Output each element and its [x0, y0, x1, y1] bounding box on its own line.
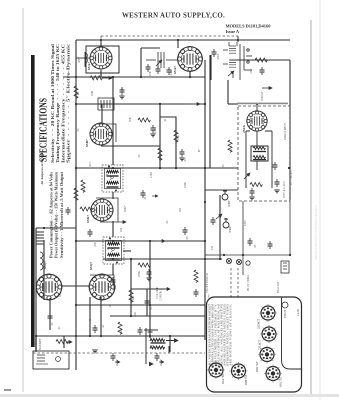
- svg-text:.0001: .0001: [170, 69, 173, 76]
- svg-text:.01: .01: [164, 118, 167, 122]
- svg-text:1200: 1200: [244, 220, 247, 226]
- svg-text:6SK7GT: 6SK7GT: [255, 361, 259, 372]
- svg-text:.006: .006: [120, 329, 123, 334]
- svg-text:Power Output (5B Volts) - - 15: Power Output (5B Volts) - - 150 Watts Ma…: [55, 171, 59, 258]
- svg-text:6SK7: 6SK7: [124, 205, 127, 212]
- svg-text:220K: 220K: [184, 182, 187, 188]
- svg-text:1M: 1M: [179, 208, 182, 212]
- svg-text:6SK7: 6SK7: [86, 215, 90, 223]
- svg-text:SOCKET: SOCKET: [38, 338, 42, 350]
- svg-text:25Z6: 25Z6: [242, 125, 246, 133]
- svg-text:6SA7: 6SA7: [87, 62, 91, 70]
- svg-text:30MF: 30MF: [229, 226, 232, 233]
- svg-text:AVC: AVC: [89, 161, 92, 167]
- svg-text:20MF: 20MF: [116, 359, 119, 366]
- svg-text:IF: IF: [106, 173, 109, 176]
- svg-text:150: 150: [211, 245, 214, 250]
- svg-text:Issue A: Issue A: [226, 29, 240, 34]
- svg-text:10K: 10K: [69, 152, 72, 157]
- svg-text:.62 Amperes at 84 Volts: .62 Amperes at 84 Volts: [40, 151, 44, 185]
- svg-text:470K: 470K: [138, 271, 141, 277]
- svg-text:.05: .05: [51, 322, 54, 326]
- svg-text:25Z6GT: 25Z6GT: [261, 91, 264, 101]
- svg-text:WESTERN AUTO SUPPLY,CO.: WESTERN AUTO SUPPLY,CO.: [122, 13, 225, 20]
- svg-text:PILOT: PILOT: [283, 309, 287, 318]
- svg-text:25L6GT: 25L6GT: [258, 340, 262, 350]
- svg-text:LOOP: LOOP: [55, 224, 58, 232]
- svg-text:.05: .05: [166, 220, 169, 224]
- svg-text:6SA7GT: 6SA7GT: [221, 373, 225, 384]
- svg-text:220K: 220K: [159, 154, 162, 160]
- svg-text:.006: .006: [134, 312, 137, 317]
- svg-text:ON-OFF SWITCH: ON-OFF SWITCH: [206, 273, 209, 293]
- svg-text:.01: .01: [89, 318, 92, 322]
- svg-text:PILOT 150MA: PILOT 150MA: [247, 275, 250, 291]
- svg-text:.05: .05: [184, 158, 187, 162]
- svg-text:SPECIFICATIONS CONTINUED MODEL: SPECIFICATIONS CONTINUED MODELS: [314, 205, 318, 260]
- svg-text:47K: 47K: [129, 117, 132, 122]
- svg-text:1M: 1M: [59, 293, 62, 297]
- svg-text:.05: .05: [222, 164, 225, 168]
- svg-text:.05: .05: [186, 236, 189, 240]
- svg-text:40MF: 40MF: [228, 200, 231, 207]
- svg-text:47K: 47K: [149, 71, 152, 76]
- svg-text:22M: 22M: [91, 90, 94, 96]
- svg-text:ARE BOTTOM VIEWS OF CHASSIS.: ARE BOTTOM VIEWS OF CHASSIS.: [229, 304, 233, 366]
- svg-text:2.2M: 2.2M: [150, 172, 153, 178]
- svg-text:Sensitivity - - 1 Microvolt at: Sensitivity - - 1 Microvolt at .5 Watt O…: [60, 171, 64, 258]
- svg-text:100K: 100K: [154, 127, 157, 133]
- svg-text:.05: .05: [138, 154, 141, 158]
- svg-text:ANT: ANT: [77, 57, 81, 63]
- svg-text:47K: 47K: [177, 135, 180, 140]
- svg-text:B+: B+: [198, 148, 201, 152]
- svg-text:117V A.C.-D.C.: 117V A.C.-D.C.: [283, 180, 286, 198]
- svg-text:Power Consumption - - .62 Ampe: Power Consumption - - .62 Amperes at 84 …: [50, 171, 54, 258]
- svg-text:.0001: .0001: [94, 240, 97, 247]
- svg-text:117V AC-DC: 117V AC-DC: [290, 170, 293, 185]
- svg-text:6SQ7: 6SQ7: [89, 262, 93, 270]
- svg-text:.0002: .0002: [217, 53, 220, 60]
- svg-text:6SQ7GT: 6SQ7GT: [279, 376, 283, 387]
- svg-text:25Z6GT: 25Z6GT: [257, 319, 261, 329]
- svg-text:OSC: OSC: [250, 68, 253, 74]
- svg-text:CONTROL: CONTROL: [160, 288, 163, 301]
- svg-text:.01: .01: [102, 324, 105, 328]
- svg-text:.01: .01: [144, 196, 147, 200]
- svg-text:Speaker - - - - - - 5″: Speaker - - - - - - 5″ Electro-Dynamic: [67, 43, 71, 163]
- svg-text:2.2M: 2.2M: [83, 186, 86, 192]
- svg-text:Selectivity - - 28 KC Broad: Selectivity - - 28 KC Broad at 1000 Time…: [51, 44, 55, 163]
- svg-text:117V: 117V: [208, 294, 211, 300]
- svg-text:BALLAST: BALLAST: [277, 281, 280, 293]
- svg-text:.05: .05: [77, 128, 80, 132]
- svg-text:.002: .002: [114, 285, 117, 290]
- svg-text:Tuning Frequency Range - -: Tuning Frequency Range - - - - 540 to 16…: [56, 44, 60, 163]
- svg-text:20MF: 20MF: [160, 359, 163, 366]
- svg-text:6SQ7: 6SQ7: [43, 261, 47, 269]
- svg-text:.02: .02: [150, 306, 153, 310]
- svg-text:1M: 1M: [132, 296, 135, 300]
- svg-text:IF: IF: [107, 247, 110, 250]
- svg-text:.01: .01: [230, 148, 233, 152]
- svg-text:6SB7GT: 6SB7GT: [244, 374, 248, 385]
- svg-text:.02: .02: [58, 326, 61, 330]
- svg-text:14-95: 14-95: [296, 309, 300, 316]
- svg-text:MODELS D1181,D4160: MODELS D1181,D4160: [226, 24, 272, 29]
- svg-text:Intermediate Frequency - -: Intermediate Frequency - - - - - - 455 K…: [62, 44, 66, 163]
- svg-text:.05: .05: [121, 88, 124, 92]
- svg-text:25Z6GT RECT.: 25Z6GT RECT.: [284, 122, 287, 140]
- svg-text:6SA7: 6SA7: [173, 66, 177, 74]
- svg-text:6SB7: 6SB7: [85, 139, 89, 147]
- svg-text:455: 455: [120, 227, 123, 232]
